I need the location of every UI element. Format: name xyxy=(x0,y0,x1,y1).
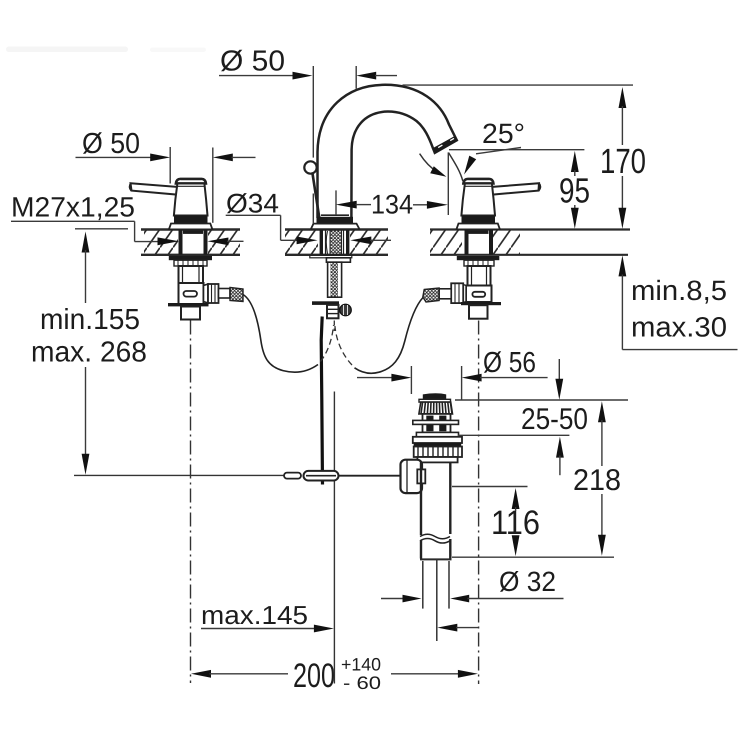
dim Ø50 left: line and arrows xyxy=(76,147,256,223)
deck slab center hatched xyxy=(285,231,318,255)
drain wide ring xyxy=(413,437,462,443)
spout aerator end face xyxy=(433,136,458,154)
right hose dashed rise xyxy=(335,326,352,365)
svg-text:25-50: 25-50 xyxy=(521,403,588,436)
dim min155/max268 vertical with arrows xyxy=(82,232,90,475)
svg-text:Ø34: Ø34 xyxy=(226,189,279,219)
center threaded shank below deck xyxy=(328,262,342,297)
spout base skirt xyxy=(311,224,360,230)
right valve shank tube xyxy=(468,266,491,286)
dim 116 vertical xyxy=(512,488,520,556)
svg-text:170: 170 xyxy=(600,142,646,181)
svg-text:218: 218 xyxy=(573,464,621,497)
right handle centerline dash-dot xyxy=(478,321,480,685)
pop-up pull rod stem xyxy=(313,174,320,220)
deck slab left hatched xyxy=(144,231,178,255)
left valve flange bar xyxy=(168,303,209,306)
dim 95 ref line at spout tip xyxy=(449,149,584,151)
svg-text:Ø 50: Ø 50 xyxy=(220,46,285,78)
left handle cap xyxy=(176,179,206,184)
svg-text:+140: +140 xyxy=(341,655,381,675)
right flex hose braided section xyxy=(423,288,439,302)
left handle centerline dashed xyxy=(190,321,192,684)
deck top line right slab extended xyxy=(430,228,630,230)
right handle neck line xyxy=(465,185,493,187)
svg-text:- 60: - 60 xyxy=(343,673,381,693)
bottom ref line 218/116 xyxy=(452,556,614,558)
left handle neck line xyxy=(177,185,205,187)
right handle body xyxy=(461,184,495,216)
deck bottom line center slab xyxy=(285,254,388,256)
swivel arc with arrow xyxy=(420,154,447,177)
left handle escutcheon dark band xyxy=(174,216,208,224)
pop-up rod guide bracket box xyxy=(327,305,339,318)
spout centerline lower xyxy=(333,392,335,684)
deck top line left slab xyxy=(141,228,240,230)
left valve side hex fitting xyxy=(204,284,231,303)
left hose solid curve xyxy=(243,295,318,373)
right valve lower block xyxy=(469,305,488,319)
svg-text:200: 200 xyxy=(293,657,335,695)
svg-text:M27x1,25: M27x1,25 xyxy=(11,192,135,223)
left valve knurled nut xyxy=(174,260,207,266)
dim max145 xyxy=(201,622,478,639)
linkage reference line xyxy=(74,474,284,476)
linkage clevis xyxy=(304,471,339,481)
deck bottom line right slab extended xyxy=(430,254,628,256)
right hose solid curve xyxy=(355,298,424,374)
drain neck xyxy=(417,457,457,462)
left hose dashed rise xyxy=(321,325,334,362)
drain cage with slots xyxy=(423,414,451,433)
drain plug cap xyxy=(419,393,451,402)
svg-text:Ø 50: Ø 50 xyxy=(82,128,140,160)
dim 25deg leader xyxy=(464,148,521,175)
dim 218 vertical xyxy=(598,401,606,556)
svg-text:Ø 32: Ø 32 xyxy=(499,566,556,597)
dim min8.5/max30 bracket xyxy=(619,255,738,349)
left valve body with slot xyxy=(179,283,204,305)
dim 25-50 top arrow xyxy=(555,359,563,400)
left handle body xyxy=(174,184,208,216)
right shank through deck xyxy=(467,230,492,255)
dim 134 xyxy=(336,152,449,215)
pop-up rod adjuster ball screw xyxy=(340,304,352,316)
faint scan artifacts top-left xyxy=(6,47,206,53)
right handle lever xyxy=(487,183,540,195)
deck top line center slab xyxy=(285,228,388,230)
drain pivot pin xyxy=(413,420,459,424)
deck slab right hatched xyxy=(430,231,462,255)
left handle base skirt xyxy=(169,224,213,230)
drain axis line xyxy=(436,559,438,641)
left valve shank tube xyxy=(179,266,204,283)
right handle base skirt xyxy=(456,224,500,230)
right valve locknut dark bar xyxy=(457,256,500,260)
right valve side hex fitting xyxy=(439,283,466,303)
dim 95 vertical xyxy=(571,151,579,229)
drain side hex nut xyxy=(401,460,426,493)
spout stream line 25deg xyxy=(449,153,463,181)
dim 25-50 bottom arrow xyxy=(556,437,564,476)
dim min155 top ref line xyxy=(75,228,128,230)
pop-up rod vertical xyxy=(321,317,322,485)
drain upper ring xyxy=(416,432,458,436)
left shank through deck xyxy=(181,230,206,255)
svg-text:Ø 56: Ø 56 xyxy=(483,347,536,379)
pop-up pull rod knob xyxy=(304,161,316,173)
spout top ref line xyxy=(403,84,634,86)
linkage rod end cap xyxy=(284,473,301,479)
right valve knurled nut xyxy=(464,260,494,266)
center washer below deck xyxy=(310,255,352,258)
tube end edge xyxy=(420,558,452,560)
left handle lever xyxy=(130,183,182,195)
dim Ø50 top: line and arrows xyxy=(219,66,397,224)
right handle escutcheon dark band xyxy=(462,216,496,224)
center nut below deck xyxy=(326,258,350,262)
center shank knurled through deck xyxy=(321,230,347,255)
linkage rod to drain xyxy=(339,475,403,477)
hose hidden dashed apex xyxy=(333,321,335,332)
left valve lower block xyxy=(181,307,200,320)
pop-up rod guide bracket bar xyxy=(312,301,339,305)
spout escutcheon top edge xyxy=(321,214,349,216)
dim Ø34 leader xyxy=(207,215,391,245)
svg-text:max.30: max.30 xyxy=(631,312,727,343)
drain dark ring xyxy=(414,443,462,447)
narrow pipe below xyxy=(423,561,449,609)
drain knurled flare xyxy=(419,402,453,414)
right valve flange bar xyxy=(461,302,501,305)
left flex hose braided section xyxy=(230,288,243,302)
dim 200 xyxy=(191,670,478,678)
svg-text:min.8,5: min.8,5 xyxy=(631,275,727,306)
dim 116 top ref line xyxy=(452,486,528,488)
dim 170 vertical xyxy=(619,87,627,229)
svg-text:max. 268: max. 268 xyxy=(31,337,147,369)
dim Ø56 xyxy=(357,366,548,400)
svg-text:95: 95 xyxy=(559,172,590,211)
deck bottom line left slab xyxy=(141,254,240,256)
spout gooseneck outline xyxy=(318,85,457,218)
ref line 25-50 bottom xyxy=(458,434,569,436)
drain tailpipe xyxy=(420,462,450,558)
spout escutcheon dark band xyxy=(317,217,354,224)
svg-text:max.145: max.145 xyxy=(201,600,308,630)
right valve body with slot xyxy=(466,286,492,303)
svg-text:min.155: min.155 xyxy=(40,304,140,336)
right handle cap xyxy=(463,179,493,184)
left valve locknut dark bar xyxy=(169,256,212,260)
svg-text:134: 134 xyxy=(371,190,413,220)
dim Ø32 xyxy=(381,595,564,603)
svg-text:25°: 25° xyxy=(482,118,525,149)
dim M27 leader xyxy=(11,221,179,245)
ref line drain cap top xyxy=(455,399,628,401)
drain castellated collar xyxy=(414,447,462,458)
